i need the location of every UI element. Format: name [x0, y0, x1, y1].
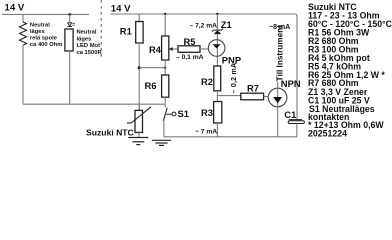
svg-text:Neutral: Neutral: [77, 30, 97, 36]
wire: relay coil branch bottom: [22, 45, 24, 104]
svg-text:~ 7 mA: ~ 7 mA: [195, 128, 217, 135]
wire: R4 branch top: [164, 14, 166, 36]
wire: R5 to PNP base: [200, 48, 208, 50]
junction: R1 wire / cross link: [138, 66, 141, 69]
potentiometer R4: [162, 36, 169, 60]
switch S1 contact circle: [172, 112, 176, 116]
junction: Z1 branch at rail: [216, 13, 218, 15]
svg-text:Till Instrument: Till Instrument: [275, 25, 284, 82]
wire: S1 down to ground rail: [163, 121, 165, 137]
junction: R4 branch at rail: [164, 13, 166, 15]
wire: NTC to ground: [138, 132, 140, 137]
svg-text:R6: R6: [145, 80, 157, 91]
resistor R3: [214, 102, 222, 124]
svg-text:R2: R2: [201, 76, 213, 87]
svg-text:ca 1500R: ca 1500R: [77, 50, 103, 56]
zener diode Z1: [212, 29, 223, 32]
resistor R1: [136, 22, 143, 44]
wire: R1 bottom down to NTC node: [138, 43, 140, 110]
wire: R7 to NPN base: [264, 96, 269, 98]
junction: LED branch to rail: [68, 13, 71, 16]
svg-text:R1: R1: [120, 26, 132, 37]
wire: R1 top: [138, 14, 140, 22]
svg-text:R7: R7: [247, 83, 259, 94]
wire: left section return rail: [23, 103, 165, 105]
label: relay coil description: [30, 22, 63, 48]
wire: left 14V rail: [2, 13, 89, 15]
wire: R6 to S1: [164, 97, 166, 107]
svg-text:Neutral: Neutral: [30, 22, 50, 28]
LED D1 (Neutral läges LED): [68, 23, 72, 26]
wire: cross link R1 node to R4/R6 node: [139, 67, 165, 69]
wire: NPN collector: [277, 82, 279, 89]
relay coil L1 (Neutral läges relä spole 400 Ohm): [20, 22, 27, 45]
svg-text:– 7,2 mA: – 7,2 mA: [190, 22, 218, 29]
transistor Q2 NPN: [268, 88, 287, 107]
svg-text:C1: C1: [284, 109, 296, 120]
svg-text:läges: läges: [77, 36, 92, 42]
divider: dashed section separator: [100, 0, 102, 57]
transistor Q1 PNP: [208, 40, 225, 57]
wire: main 14V top rail with corner to instrument feed: [110, 14, 297, 119]
wire: R3 to ground rail: [216, 123, 218, 137]
svg-text:Suzuki NTC: Suzuki NTC: [86, 128, 134, 138]
svg-text:20251224: 20251224: [308, 128, 347, 138]
wire: bottom ground rail: [164, 136, 297, 138]
svg-text:R3: R3: [201, 107, 213, 118]
resistor R7: [241, 93, 264, 100]
resistor R6: [162, 75, 169, 97]
wire: base node to R7: [217, 95, 240, 97]
svg-text:Z1: Z1: [221, 19, 232, 30]
svg-text:läges: läges: [30, 29, 45, 35]
svg-text:R5: R5: [184, 36, 196, 47]
wire: NPN emitter to ground rail: [277, 107, 279, 137]
wire: C1 to ground rail: [296, 124, 298, 137]
resistor R2: [214, 66, 221, 91]
svg-text:LED Mot: LED Mot: [77, 43, 101, 49]
resistor R5: [178, 46, 200, 53]
wire: wiper to R5: [172, 48, 178, 50]
wire: R4 to R6: [164, 60, 166, 75]
wire: R2 to R3 and base node: [216, 91, 218, 102]
wire: Z1 to PNP emitter / through transistor to R2: [216, 34, 218, 66]
ground (under S1): [152, 140, 171, 145]
wire: LED branch top: [69, 14, 71, 22]
svg-text:S1: S1: [178, 108, 189, 119]
switch S1 blade: [163, 108, 167, 121]
svg-text:NPN: NPN: [281, 78, 301, 89]
wiper arrow into R4: [169, 47, 173, 51]
parts list text block: [308, 2, 392, 139]
svg-text:14 V: 14 V: [5, 3, 25, 14]
wire: Z1 branch from rail: [216, 14, 218, 30]
wire: relay coil branch top: [22, 14, 24, 22]
svg-text:14 V: 14 V: [111, 3, 131, 14]
junction: R4/R6 node: [164, 67, 166, 69]
ground (under NTC): [128, 138, 148, 145]
resistor (LED series ca 1500R): [65, 29, 73, 51]
svg-text:– 0,2 mA: – 0,2 mA: [231, 63, 238, 94]
label: LED description: [77, 30, 103, 56]
wire: NTC node to NTC: [138, 104, 140, 110]
svg-text:– 0,1 mA: – 0,1 mA: [176, 54, 204, 61]
svg-text:relä spole: relä spole: [30, 36, 58, 42]
svg-text:ca 400 Ohm: ca 400 Ohm: [30, 42, 63, 48]
wire: LED branch bottom: [69, 51, 71, 104]
thermistor NTC (Suzuki NTC): [135, 110, 143, 132]
capacitor C1: [289, 119, 302, 121]
switch S1 contact stub: [166, 113, 172, 115]
svg-text:R4: R4: [149, 44, 162, 55]
